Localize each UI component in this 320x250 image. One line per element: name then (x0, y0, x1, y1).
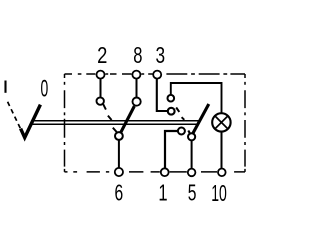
terminal 8 (132, 71, 140, 79)
lamp (212, 113, 230, 131)
svg-text:10: 10 (211, 182, 227, 207)
box top edge (65, 73, 246, 75)
pole1 alternate position dash b (108, 116, 112, 120)
pole3 moving contact lever (193, 104, 209, 134)
pole1 alternate position dash a (103, 104, 106, 109)
wire contact P5 to terminal 5 (191, 140, 193, 172)
box bottom edge (65, 171, 246, 173)
terminal 5 (188, 169, 196, 177)
actuator lever (21, 105, 41, 138)
terminal 3 (153, 71, 161, 79)
terminal 8 wire (136, 74, 138, 102)
pole1 moving contact (solid, 8 to 6) (121, 106, 134, 132)
terminal 10 (218, 169, 226, 177)
mechanical coupling bus (33, 120, 200, 122)
terminal 2 (97, 71, 105, 79)
terminal 2 wire (100, 74, 102, 101)
pivot P6 contact (115, 132, 123, 140)
pivot P5 contact (188, 133, 195, 140)
wire contact C1 to terminal 1 (165, 131, 178, 172)
svg-text:3: 3 (156, 44, 166, 69)
wire lamp feed from contact U (171, 83, 222, 114)
contact B under terminal 8 (133, 98, 141, 106)
contact U (lamp feed) (168, 95, 175, 102)
wire pivot P6 to terminal 6 (118, 136, 120, 172)
position mark I (4, 81, 6, 93)
contact L (from terminal 3) (168, 108, 175, 115)
pole3 alternate position dash b (U to P5) (182, 117, 185, 120)
pole3 alternate position dash c (U to P5) (188, 131, 190, 135)
enclosure dash-dot box (65, 74, 246, 172)
terminal 6 (115, 168, 123, 176)
terminal 3 wire (157, 74, 168, 111)
svg-text:1: 1 (158, 181, 167, 206)
actuator alternate position (dashed) (8, 102, 21, 130)
wire lamp to terminal 10 (221, 131, 223, 172)
svg-text:6: 6 (115, 181, 124, 207)
svg-text:5: 5 (188, 181, 197, 207)
pole1 alternate position dash c (113, 128, 117, 132)
terminal 1 (161, 168, 169, 176)
svg-text:0: 0 (41, 76, 49, 103)
svg-text:8: 8 (133, 43, 142, 68)
box left edge (64, 74, 66, 172)
contact C1 (to terminal 1) (178, 128, 185, 135)
pole3 alternate position dash a (U to P5) (176, 108, 179, 112)
svg-text:2: 2 (97, 43, 107, 68)
contact A under terminal 2 (97, 97, 104, 104)
box right edge (244, 74, 246, 172)
